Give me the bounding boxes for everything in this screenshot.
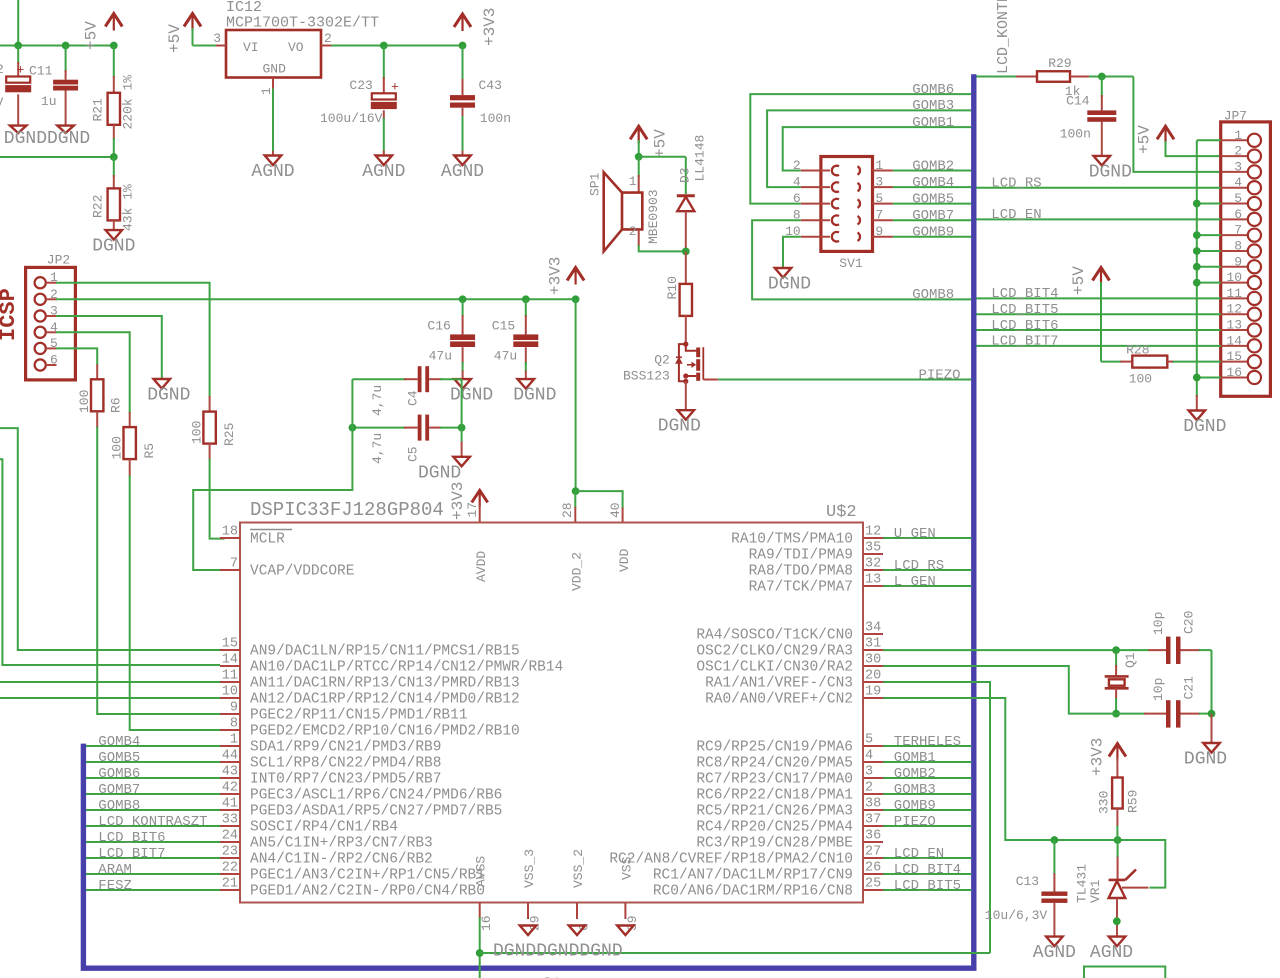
svg-text:R59: R59 — [1126, 790, 1141, 813]
svg-text:GOMB7: GOMB7 — [912, 208, 954, 224]
svg-text:LCD_BIT6: LCD_BIT6 — [98, 830, 165, 846]
svg-text:1: 1 — [1234, 128, 1242, 143]
svg-text:SV1: SV1 — [839, 256, 863, 271]
svg-text:SCL1/RP8/CN22/PMD4/RB8: SCL1/RP8/CN22/PMD4/RB8 — [250, 756, 441, 772]
svg-text:GOMB2: GOMB2 — [912, 158, 954, 174]
svg-text:GOMB5: GOMB5 — [912, 191, 954, 207]
svg-text:RC9/RP25/CN19/PMA6: RC9/RP25/CN19/PMA6 — [696, 740, 853, 756]
svg-text:9: 9 — [1234, 254, 1242, 269]
svg-text:R21: R21 — [91, 98, 106, 122]
svg-text:R22: R22 — [91, 195, 106, 218]
svg-text:FESZ: FESZ — [98, 878, 132, 894]
svg-text:AVSS: AVSS — [474, 856, 489, 887]
svg-text:1: 1 — [230, 733, 238, 748]
svg-text:SP1: SP1 — [588, 172, 603, 196]
svg-text:TERHELES: TERHELES — [894, 734, 961, 750]
svg-text:V: V — [0, 95, 4, 110]
svg-text:43k 1%: 43k 1% — [121, 184, 136, 231]
svg-text:4,7u: 4,7u — [370, 385, 385, 416]
svg-text:7: 7 — [1234, 223, 1242, 238]
svg-text:220k 1%: 220k 1% — [121, 75, 136, 130]
svg-text:PGED2/EMCD2/RP10/CN16/PMD2/RB1: PGED2/EMCD2/RP10/CN16/PMD2/RB10 — [250, 724, 520, 740]
svg-text:RC2/AN8/CVREF/RP18/PMA2/CN10: RC2/AN8/CVREF/RP18/PMA2/CN10 — [609, 852, 853, 868]
svg-text:+5V: +5V — [83, 21, 101, 50]
svg-text:PGED3/ASDA1/RP5/CN27/PMD7/RB5: PGED3/ASDA1/RP5/CN27/PMD7/RB5 — [250, 804, 502, 820]
svg-text:C43: C43 — [479, 78, 502, 93]
svg-text:GOMB5: GOMB5 — [98, 750, 140, 766]
svg-text:16: 16 — [479, 915, 494, 931]
svg-text:Q1: Q1 — [1123, 652, 1138, 668]
svg-text:43: 43 — [222, 765, 238, 780]
svg-text:VDD_2: VDD_2 — [570, 552, 585, 591]
svg-text:9: 9 — [875, 224, 883, 239]
svg-text:GOMB4: GOMB4 — [98, 734, 140, 750]
svg-text:LCD_BIT4: LCD_BIT4 — [894, 862, 961, 878]
svg-text:AGND: AGND — [251, 162, 294, 182]
svg-text:LL4148: LL4148 — [693, 135, 708, 182]
svg-text:R6: R6 — [109, 397, 124, 413]
svg-text:RA0/AN0/VREF+/CN2: RA0/AN0/VREF+/CN2 — [705, 692, 853, 708]
svg-text:GOMB8: GOMB8 — [912, 287, 954, 303]
svg-text:RC0/AN6/DAC1RM/RP16/CN8: RC0/AN6/DAC1RM/RP16/CN8 — [653, 884, 853, 900]
svg-text:Q2: Q2 — [654, 352, 670, 367]
svg-text:SOSCI/RP4/CN1/RB4: SOSCI/RP4/CN1/RB4 — [250, 820, 398, 836]
svg-text:28: 28 — [560, 502, 575, 518]
svg-text:ARAM: ARAM — [98, 862, 132, 878]
svg-text:ICSP: ICSP — [0, 288, 21, 341]
svg-text:3: 3 — [865, 765, 873, 780]
svg-text:LCD_BIT4: LCD_BIT4 — [991, 286, 1058, 302]
svg-text:VR1: VR1 — [1088, 879, 1103, 903]
svg-text:RA9/TDI/PMA9: RA9/TDI/PMA9 — [749, 548, 853, 564]
svg-text:PGED1/AN2/C2IN-/RP0/CN4/RB0: PGED1/AN2/C2IN-/RP0/CN4/RB0 — [250, 884, 485, 900]
svg-text:C11: C11 — [29, 64, 53, 79]
svg-text:10p: 10p — [1151, 612, 1166, 635]
svg-text:AGND: AGND — [441, 162, 484, 182]
svg-text:DGND: DGND — [92, 237, 135, 257]
svg-text:4: 4 — [865, 749, 873, 764]
svg-text:INT0/RP7/CN23/PMD5/RB7: INT0/RP7/CN23/PMD5/RB7 — [250, 772, 441, 788]
svg-text:+3V3: +3V3 — [1089, 738, 1107, 776]
svg-text:25: 25 — [865, 877, 881, 892]
svg-text:13: 13 — [865, 573, 881, 588]
svg-text:2: 2 — [629, 224, 637, 239]
svg-text:PGEC1/AN3/C2IN+/RP1/CN5/RB1: PGEC1/AN3/C2IN+/RP1/CN5/RB1 — [250, 868, 485, 884]
svg-text:3: 3 — [1234, 159, 1242, 174]
svg-text:27: 27 — [865, 845, 881, 860]
svg-text:SDA1/RP9/CN21/PMD3/RB9: SDA1/RP9/CN21/PMD3/RB9 — [250, 740, 441, 756]
svg-text:13: 13 — [1226, 318, 1242, 333]
svg-text:C14: C14 — [1066, 94, 1090, 109]
svg-text:VCAP/VDDCORE: VCAP/VDDCORE — [250, 564, 354, 580]
svg-text:21: 21 — [222, 877, 238, 892]
svg-text:12: 12 — [865, 525, 881, 540]
svg-text:30: 30 — [865, 653, 881, 668]
svg-text:100n: 100n — [480, 111, 511, 126]
svg-text:DGNDDGNDDGND: DGNDDGNDDGND — [493, 942, 623, 962]
svg-text:11: 11 — [222, 669, 238, 684]
svg-text:8: 8 — [230, 717, 238, 732]
svg-text:10p: 10p — [1151, 678, 1166, 701]
svg-text:AGND: AGND — [362, 162, 405, 182]
svg-text:2: 2 — [1234, 144, 1242, 159]
svg-text:MCLR: MCLR — [250, 532, 285, 548]
svg-text:RA1/AN1/VREF-/CN3: RA1/AN1/VREF-/CN3 — [705, 676, 853, 692]
svg-text:AGND: AGND — [1033, 943, 1076, 963]
svg-text:GOMB3: GOMB3 — [894, 782, 936, 798]
svg-text:+3V3: +3V3 — [547, 257, 565, 295]
svg-text:R28: R28 — [1126, 343, 1149, 358]
svg-text:19: 19 — [865, 685, 881, 700]
svg-text:LCD_BIT5: LCD_BIT5 — [991, 302, 1058, 318]
svg-text:AGND: AGND — [1090, 943, 1133, 963]
svg-text:DGNDDGND: DGNDDGND — [4, 129, 90, 149]
svg-text:C4: C4 — [406, 390, 421, 406]
svg-text:40: 40 — [608, 502, 623, 518]
svg-text:VI: VI — [243, 40, 259, 55]
svg-text:PGEC2/RP11/CN15/PMD1/RB11: PGEC2/RP11/CN15/PMD1/RB11 — [250, 708, 468, 724]
svg-text:DSPIC33FJ128GP804: DSPIC33FJ128GP804 — [250, 499, 444, 521]
svg-text:38: 38 — [865, 797, 881, 812]
svg-text:U$2: U$2 — [826, 503, 857, 522]
svg-text:26: 26 — [865, 861, 881, 876]
svg-text:6: 6 — [50, 353, 58, 368]
svg-text:33: 33 — [222, 813, 238, 828]
svg-text:2: 2 — [865, 781, 873, 796]
svg-text:AN12/DAC1RP/RP12/CN14/PMD0/RB1: AN12/DAC1RP/RP12/CN14/PMD0/RB12 — [250, 692, 520, 708]
svg-text:RA7/TCK/PMA7: RA7/TCK/PMA7 — [749, 580, 853, 596]
svg-text:GOMB6: GOMB6 — [912, 82, 954, 98]
svg-text:VSS_2: VSS_2 — [571, 849, 586, 888]
svg-text:LCD_KONTRASZT: LCD_KONTRASZT — [98, 814, 207, 830]
svg-text:GOMB1: GOMB1 — [912, 115, 954, 131]
svg-text:3: 3 — [213, 31, 221, 46]
svg-text:23: 23 — [222, 845, 238, 860]
svg-text:LCD_RS: LCD_RS — [894, 558, 944, 574]
svg-text:32: 32 — [865, 557, 881, 572]
svg-text:100: 100 — [1129, 372, 1152, 387]
svg-text:LCD_EN: LCD_EN — [991, 207, 1041, 223]
svg-text:VO: VO — [288, 40, 304, 55]
svg-text:LCD_RS: LCD_RS — [991, 176, 1041, 192]
svg-text:C20: C20 — [1182, 611, 1197, 634]
svg-text:5: 5 — [865, 733, 873, 748]
svg-text:35: 35 — [865, 541, 881, 556]
svg-text:DGND: DGND — [418, 463, 461, 483]
svg-text:GOMB6: GOMB6 — [98, 766, 140, 782]
svg-text:DGND: DGND — [1184, 750, 1227, 770]
svg-text:10: 10 — [222, 685, 238, 700]
svg-text:DGND: DGND — [658, 417, 701, 437]
svg-text:GOMB2: GOMB2 — [894, 766, 936, 782]
svg-text:47u: 47u — [429, 349, 452, 364]
svg-text:C5: C5 — [406, 446, 421, 462]
svg-text:GOMB9: GOMB9 — [894, 798, 936, 814]
svg-text:RA8/TDO/PMA8: RA8/TDO/PMA8 — [749, 564, 853, 580]
svg-text:AN4/C1IN-/RP2/CN6/RB2: AN4/C1IN-/RP2/CN6/RB2 — [250, 852, 433, 868]
svg-text:JP7: JP7 — [1224, 109, 1247, 124]
svg-text:AN5/C1IN+/RP3/CN7/RB3: AN5/C1IN+/RP3/CN7/RB3 — [250, 836, 433, 852]
svg-text:3: 3 — [875, 175, 883, 190]
svg-text:100: 100 — [190, 421, 205, 444]
svg-text:100: 100 — [77, 390, 92, 413]
svg-text:VSS: VSS — [619, 856, 634, 880]
svg-text:20: 20 — [865, 669, 881, 684]
svg-text:MBE0903: MBE0903 — [646, 189, 661, 244]
svg-text:PIEZO: PIEZO — [919, 367, 961, 383]
svg-text:GOMB8: GOMB8 — [98, 798, 140, 814]
svg-text:100n: 100n — [1060, 127, 1091, 142]
svg-text:C13: C13 — [1016, 874, 1039, 889]
svg-text:RC5/RP21/CN26/PMA3: RC5/RP21/CN26/PMA3 — [696, 804, 853, 820]
svg-text:GOMB1: GOMB1 — [894, 750, 936, 766]
svg-text:42: 42 — [222, 781, 238, 796]
svg-text:RC3/RP19/CN28/PMBE: RC3/RP19/CN28/PMBE — [696, 836, 853, 852]
svg-text:VDD: VDD — [617, 548, 632, 572]
svg-text:31: 31 — [865, 637, 881, 652]
svg-text:D3: D3 — [678, 167, 693, 183]
svg-text:PIEZO: PIEZO — [894, 814, 936, 830]
svg-text:RA10/TMS/PMA10: RA10/TMS/PMA10 — [731, 532, 853, 548]
svg-text:DGND: DGND — [1089, 162, 1132, 182]
svg-text:100: 100 — [110, 436, 125, 459]
svg-text:OSC2/CLKO/CN29/RA3: OSC2/CLKO/CN29/RA3 — [696, 644, 853, 660]
svg-text:AN9/DAC1LN/RP15/CN11/PMCS1/RB1: AN9/DAC1LN/RP15/CN11/PMCS1/RB15 — [250, 644, 520, 660]
svg-text:GOMB7: GOMB7 — [98, 782, 140, 798]
svg-text:1: 1 — [259, 87, 274, 95]
svg-text:330: 330 — [1097, 791, 1112, 814]
svg-text:LCD_KONTRASZT: LCD_KONTRASZT — [995, 0, 1012, 74]
svg-text:17: 17 — [465, 502, 480, 518]
svg-text:RC6/RP22/CN18/PMA1: RC6/RP22/CN18/PMA1 — [696, 788, 853, 804]
svg-text:+: + — [17, 63, 25, 78]
svg-text:C21: C21 — [1182, 676, 1197, 700]
svg-text:BSS123: BSS123 — [623, 369, 670, 384]
svg-text:RC8/RP24/CN20/PMA5: RC8/RP24/CN20/PMA5 — [696, 756, 853, 772]
svg-text:LCD_EN: LCD_EN — [894, 846, 944, 862]
svg-text:R29: R29 — [1048, 56, 1071, 71]
svg-text:AN10/DAC1LP/RTCC/RP14/CN12/PMW: AN10/DAC1LP/RTCC/RP14/CN12/PMWR/RB14 — [250, 660, 563, 676]
svg-text:AN11/DAC1RN/RP13/CN13/PMRD/RB1: AN11/DAC1RN/RP13/CN13/PMRD/RB13 — [250, 676, 520, 692]
svg-text:L_GEN: L_GEN — [894, 574, 936, 590]
svg-text:+5V: +5V — [1136, 125, 1154, 154]
svg-text:RC1/AN7/DAC1LM/RP17/CN9: RC1/AN7/DAC1LM/RP17/CN9 — [653, 868, 853, 884]
svg-text:1u: 1u — [41, 94, 57, 109]
svg-text:15: 15 — [222, 637, 238, 652]
svg-text:14: 14 — [222, 653, 238, 668]
svg-text:DGND: DGND — [768, 275, 811, 295]
svg-text:4: 4 — [1234, 175, 1242, 190]
svg-text:15: 15 — [1226, 349, 1242, 364]
svg-text:RC4/RP20/CN25/PMA4: RC4/RP20/CN25/PMA4 — [696, 820, 853, 836]
svg-text:24: 24 — [222, 829, 238, 844]
svg-text:2: 2 — [324, 31, 332, 46]
svg-text:44: 44 — [222, 749, 238, 764]
svg-text:GOMB9: GOMB9 — [912, 225, 954, 241]
svg-text:GOMB3: GOMB3 — [912, 98, 954, 114]
svg-text:C23: C23 — [349, 78, 372, 93]
svg-text:7: 7 — [875, 208, 883, 223]
svg-text:10: 10 — [1226, 270, 1242, 285]
svg-text:2: 2 — [0, 62, 4, 77]
svg-text:4,7u: 4,7u — [370, 433, 385, 464]
svg-text:100u/16V: 100u/16V — [320, 111, 383, 126]
svg-text:37: 37 — [865, 813, 881, 828]
svg-text:34: 34 — [865, 621, 881, 636]
svg-text:+5V: +5V — [1070, 266, 1088, 295]
svg-text:+3V3: +3V3 — [481, 8, 499, 46]
svg-text:1: 1 — [629, 174, 637, 189]
svg-text:R5: R5 — [142, 443, 157, 459]
svg-text:8: 8 — [1234, 238, 1242, 253]
svg-text:41: 41 — [222, 797, 238, 812]
svg-text:9: 9 — [230, 701, 238, 716]
svg-text:47u: 47u — [494, 349, 517, 364]
svg-text:DGND: DGND — [513, 386, 556, 406]
svg-text:14: 14 — [1226, 333, 1242, 348]
svg-text:RC7/RP23/CN17/PMA0: RC7/RP23/CN17/PMA0 — [696, 772, 853, 788]
svg-text:DGND: DGND — [1183, 417, 1226, 437]
svg-text:LCD_BIT7: LCD_BIT7 — [991, 334, 1058, 350]
svg-text:R10: R10 — [665, 276, 680, 299]
svg-text:RA4/SOSCO/T1CK/CN0: RA4/SOSCO/T1CK/CN0 — [696, 628, 853, 644]
svg-text:1: 1 — [875, 158, 883, 173]
svg-text:+: + — [391, 80, 399, 95]
svg-text:C16: C16 — [427, 319, 450, 334]
svg-text:GOMB4: GOMB4 — [912, 175, 954, 191]
svg-text:5: 5 — [1234, 191, 1242, 206]
svg-text:LCD_BIT7: LCD_BIT7 — [98, 846, 165, 862]
svg-text:VSS_3: VSS_3 — [522, 849, 537, 888]
svg-text:C15: C15 — [492, 319, 515, 334]
svg-text:11: 11 — [1226, 286, 1242, 301]
svg-text:36: 36 — [865, 829, 881, 844]
svg-text:U_GEN: U_GEN — [894, 526, 936, 542]
svg-text:12: 12 — [1226, 302, 1242, 317]
svg-text:JP2: JP2 — [47, 253, 70, 268]
svg-text:GND: GND — [263, 62, 287, 77]
svg-text:+5V: +5V — [651, 129, 669, 158]
svg-text:LCD_BIT5: LCD_BIT5 — [894, 878, 961, 894]
svg-text:5: 5 — [875, 191, 883, 206]
svg-text:DGND: DGND — [147, 386, 190, 406]
svg-text:10u/6,3V: 10u/6,3V — [985, 908, 1048, 923]
svg-text:OSC1/CLKI/CN30/RA2: OSC1/CLKI/CN30/RA2 — [696, 660, 853, 676]
svg-text:AVDD: AVDD — [474, 551, 489, 582]
svg-text:18: 18 — [222, 525, 238, 540]
svg-text:6: 6 — [1234, 207, 1242, 222]
svg-text:PGEC3/ASCL1/RP6/CN24/PMD6/RB6: PGEC3/ASCL1/RP6/CN24/PMD6/RB6 — [250, 788, 502, 804]
svg-text:16: 16 — [1226, 365, 1242, 380]
svg-text:+5V: +5V — [166, 24, 184, 53]
svg-text:R25: R25 — [222, 423, 237, 446]
svg-text:22: 22 — [222, 861, 238, 876]
svg-text:DGND: DGND — [450, 386, 493, 406]
svg-text:LCD_BIT6: LCD_BIT6 — [991, 318, 1058, 334]
svg-text:7: 7 — [230, 557, 238, 572]
